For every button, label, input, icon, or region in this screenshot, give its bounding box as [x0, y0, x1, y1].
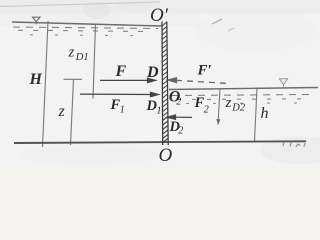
svg-text:D: D [146, 64, 159, 81]
svg-text:h: h [261, 105, 269, 122]
svg-text:O′: O′ [150, 5, 169, 26]
svg-text:z: z [68, 45, 75, 61]
svg-text:2: 2 [178, 126, 183, 137]
svg-text:z: z [58, 103, 66, 120]
svg-text:D2: D2 [231, 103, 246, 114]
svg-text:2: 2 [176, 97, 181, 108]
svg-text:2: 2 [204, 105, 209, 116]
svg-text:1: 1 [120, 105, 125, 116]
svg-text:1: 1 [157, 105, 162, 116]
svg-text:D1: D1 [75, 52, 89, 63]
svg-text:H: H [29, 71, 43, 88]
svg-text:z: z [225, 95, 232, 111]
svg-text:O: O [159, 145, 173, 166]
svg-text:F′: F′ [197, 63, 212, 79]
svg-text:F: F [115, 63, 127, 80]
